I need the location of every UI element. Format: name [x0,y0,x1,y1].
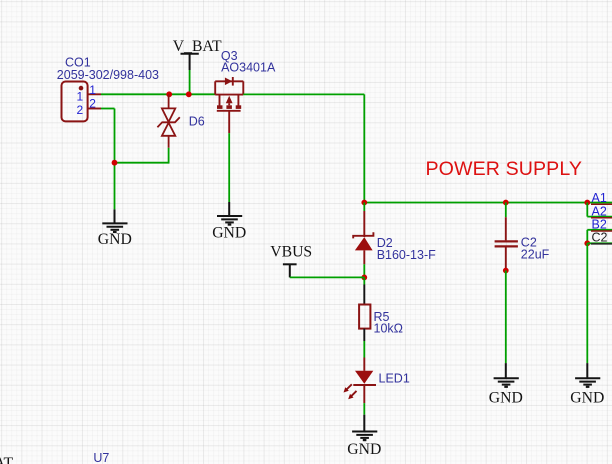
ground symbol under Q3 gate [217,202,242,225]
svg-text:B160-13-F: B160-13-F [377,248,436,262]
svg-text:U7: U7 [93,451,109,464]
wire C2 to GND [505,271,507,364]
svg-text:1: 1 [89,83,96,97]
junction at CO1 pin2 branch [112,160,118,166]
svg-text:2059-302/998-403: 2059-302/998-403 [57,68,159,82]
svg-text:2: 2 [77,103,84,117]
junction bus C2 [503,200,509,206]
svg-text:GND: GND [570,390,604,407]
pin stub under B2 [591,230,612,232]
svg-text:C2: C2 [592,231,608,245]
capacitor C2 [495,217,518,270]
pin stub under C2 [591,243,612,245]
junction bus D2 [361,200,367,206]
ground symbol right branch [575,363,600,387]
wire Q3 gate to GND [228,133,230,202]
wire right branch A2 vertical [586,203,588,217]
svg-text:GND: GND [98,231,132,248]
wire corner down to bus [363,94,365,202]
wire CO1 pin2 down [114,109,116,163]
svg-text:2: 2 [89,97,96,111]
junction below C2 [503,268,509,274]
resistor R5 body [359,305,370,329]
pin stub under A1 [591,203,612,205]
diode D6 (bidirectional TVS) [157,94,179,148]
wire right branch down to GND [586,243,588,363]
svg-text:A2: A2 [592,205,607,219]
svg-text:POWER SUPPLY: POWER SUPPLY [426,158,583,180]
junction V_BAT [186,91,192,97]
svg-text:B2: B2 [592,218,607,232]
junction D6 top [166,91,172,97]
svg-text:D6: D6 [189,114,205,128]
wire CO1 pin1 to Q3 source [101,93,215,95]
wire main bus [364,202,612,204]
resistor R5 pin bottom [363,329,365,341]
wire V_BAT down [189,70,191,94]
diode D2 (Schottky B160-13-F) [353,211,373,264]
ground symbol under LED1 [352,415,377,440]
wire right branch B2 horizontal [587,229,612,231]
LED LED1 [344,358,377,404]
svg-text:A1: A1 [592,191,607,205]
wire right branch A2 horizontal [587,216,612,218]
svg-text:10kΩ: 10kΩ [374,322,404,336]
wire LED1 to GND [363,403,365,415]
wire Q3 drain to corner [243,93,364,95]
transistor Q3 (P-MOSFET) [215,77,243,133]
junction bus right [584,200,590,206]
svg-text:VBUS: VBUS [270,243,312,260]
wire bottom branch to D6 [115,162,169,164]
pin stub under A2 [591,217,612,219]
connector CO1 polarity dot [79,86,84,91]
svg-text:AO3401A: AO3401A [221,61,276,75]
wire bus to D2 [363,203,365,212]
resistor R5 pin top [363,285,365,305]
svg-text:GND: GND [347,441,381,458]
wire D6 bottom [168,148,170,164]
svg-text:LED1: LED1 [379,372,410,386]
junction right branch [584,240,590,246]
ground symbol under C2 [494,363,519,387]
svg-text:BAT: BAT [0,455,14,464]
wire VBUS to node [290,276,365,278]
wire right branch C2 horizontal [587,242,612,244]
capacitor C2 wire from bus [505,203,507,218]
power symbol VBUS [283,264,297,277]
connector CO1 pin 2 stub [88,108,101,110]
svg-text:V_BAT: V_BAT [173,38,222,55]
wire CO1 pin2 right [101,108,115,110]
wire D2 to VBUS node [363,264,365,277]
ground symbol under CO1 branch [102,209,127,232]
wire branch down to GND [114,163,116,210]
connector CO1 body [62,82,88,122]
svg-text:GND: GND [489,390,523,407]
power symbol V_BAT [181,54,199,70]
connector CO1 pin 1 stub [88,93,101,95]
svg-text:GND: GND [212,224,246,241]
svg-text:22uF: 22uF [521,247,550,261]
wire node to R5 [363,277,365,284]
wire right branch B2 down [586,230,588,244]
junction VBUS node [361,275,367,281]
svg-text:1: 1 [77,90,84,104]
wire R5 to LED1 [363,341,365,358]
